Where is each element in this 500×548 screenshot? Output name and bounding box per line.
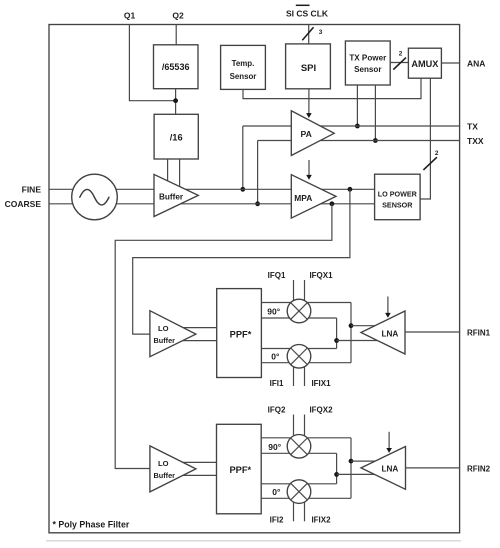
- junction TX tap: [355, 124, 360, 129]
- svg-text:IFIX2: IFIX2: [311, 516, 331, 525]
- scan artifact line: [46, 540, 461, 542]
- divider /16: [154, 114, 198, 159]
- svg-text:Temp.: Temp.: [232, 59, 255, 68]
- wire /65536 to /16: [175, 89, 177, 115]
- junction LO feed 2: [330, 201, 335, 206]
- junction LNA1 lower: [334, 338, 339, 343]
- wire IFQ1 lines: [293, 280, 295, 311]
- svg-text:LO: LO: [158, 324, 169, 333]
- junction TXX tap: [373, 138, 378, 143]
- wire TX line: [243, 125, 460, 127]
- svg-text:Q2: Q2: [172, 11, 184, 21]
- svg-text:SPI: SPI: [301, 63, 316, 74]
- mixer 1b: [287, 345, 311, 369]
- svg-text:LNA: LNA: [382, 329, 399, 338]
- wire IFI1 lines: [293, 356, 295, 386]
- svg-text:RFIN1: RFIN1: [467, 329, 491, 338]
- wire TXX line: [258, 140, 460, 142]
- svg-text:LO: LO: [158, 459, 169, 468]
- svg-text:IFIX1: IFIX1: [311, 379, 331, 388]
- wire /16 to buffer: [167, 159, 169, 186]
- svg-text:TX: TX: [467, 122, 478, 132]
- svg-text:PA: PA: [301, 129, 312, 139]
- wire TX power sense tap 1: [356, 85, 358, 126]
- junction TXX riser: [255, 201, 260, 206]
- svg-text:MPA: MPA: [294, 193, 312, 203]
- wire RF vertical 2b: [336, 453, 338, 484]
- wire AMUX to ANA pin: [441, 62, 459, 64]
- wire RF vertical 1a: [350, 303, 352, 363]
- mixer 1a: [287, 299, 311, 323]
- svg-text:90°: 90°: [267, 307, 280, 317]
- wire LO buffer2 outputs: [180, 461, 217, 463]
- svg-text:IFI1: IFI1: [270, 379, 284, 388]
- svg-text:Buffer: Buffer: [159, 193, 184, 202]
- svg-text:RFIN2: RFIN2: [467, 464, 491, 473]
- svg-text:0°: 0°: [272, 487, 281, 497]
- svg-text:0°: 0°: [271, 351, 280, 361]
- svg-text:PPF*: PPF*: [230, 330, 252, 340]
- mixer 2a: [287, 435, 311, 459]
- wire to LNA2 edges: [351, 460, 378, 462]
- svg-text:IFQX1: IFQX1: [309, 271, 333, 280]
- wire LO buffer1 outputs: [180, 327, 217, 329]
- wire LO feed 1 to LO buffer 1: [133, 189, 350, 334]
- wire IFQ2 lines: [293, 415, 295, 447]
- svg-text:SI CS CLK: SI CS CLK: [286, 8, 329, 18]
- svg-text:TXX: TXX: [467, 136, 484, 146]
- junction LNA2 lower: [334, 472, 339, 477]
- amplifier PA: [291, 111, 334, 156]
- wire FINE line: [49, 188, 375, 190]
- temp sensor: [221, 45, 266, 89]
- wire LO power sensor to AMUX: [420, 78, 430, 199]
- wire SPI bus: [308, 25, 310, 44]
- wire TX power sense tap 2: [374, 85, 376, 141]
- mixer 2b: [287, 480, 311, 504]
- svg-text:COARSE: COARSE: [5, 199, 42, 209]
- buffer amp: [154, 174, 198, 216]
- wire COARSE line: [49, 203, 375, 205]
- svg-text:2: 2: [399, 51, 403, 58]
- AMUX block: [408, 48, 441, 78]
- svg-text:IFQ2: IFQ2: [268, 406, 286, 415]
- chip outer border: [49, 25, 460, 533]
- junction Q1//65536: [173, 98, 178, 103]
- svg-text:SENSOR: SENSOR: [382, 201, 413, 210]
- MPA gain arrow: [308, 160, 310, 175]
- svg-text:PPF*: PPF*: [229, 465, 251, 475]
- svg-text:90°: 90°: [268, 442, 281, 452]
- svg-text:/16: /16: [170, 132, 183, 142]
- wire LO feed 2 to LO buffer 2: [115, 204, 332, 469]
- svg-text:LO POWER: LO POWER: [378, 190, 418, 199]
- LNA2 gain arrow: [388, 432, 390, 449]
- wire Q1: [129, 25, 175, 101]
- LO power sensor: [375, 174, 421, 220]
- bus slash 2: [393, 58, 406, 70]
- wire Q2: [175, 25, 177, 45]
- svg-text:/65536: /65536: [162, 62, 190, 72]
- wire RF vertical 1b: [336, 318, 338, 349]
- divider /65536: [154, 45, 199, 89]
- svg-text:AMUX: AMUX: [411, 59, 439, 69]
- svg-text:FINE: FINE: [22, 185, 42, 195]
- PPF 1: [217, 289, 262, 378]
- svg-text:Q1: Q1: [124, 11, 136, 21]
- svg-text:IFQX2: IFQX2: [309, 406, 333, 415]
- svg-text:Sensor: Sensor: [230, 72, 257, 81]
- junction LNA2 upper: [349, 459, 354, 464]
- junction LO feed 1: [348, 187, 353, 192]
- wire RF vertical 2a: [350, 438, 352, 499]
- wire temp sensor to AMUX: [243, 78, 421, 98]
- svg-text:Buffer: Buffer: [154, 336, 176, 345]
- SPI block: [286, 44, 331, 89]
- wire to LNA1 edges: [351, 325, 378, 327]
- LNA 2: [361, 447, 406, 490]
- oscillator: [72, 174, 118, 220]
- LO buffer 2: [150, 446, 196, 492]
- wire RFIN1: [405, 331, 460, 333]
- amplifier MPA: [291, 175, 336, 218]
- svg-text:TX Power: TX Power: [349, 54, 387, 63]
- svg-text:IFI2: IFI2: [270, 516, 284, 525]
- wire IFI2 lines: [293, 491, 295, 521]
- svg-text:LNA: LNA: [382, 465, 399, 474]
- wire mixer2b in/out: [261, 483, 336, 485]
- wire mixer2a in/out: [261, 437, 351, 439]
- svg-text:IFQ1: IFQ1: [268, 271, 286, 280]
- svg-text:3: 3: [319, 29, 323, 36]
- TX power sensor: [345, 41, 390, 85]
- junction TX riser: [240, 187, 245, 192]
- svg-text:ANA: ANA: [467, 59, 485, 69]
- LNA1 gain arrow: [387, 297, 389, 314]
- svg-text:Sensor: Sensor: [354, 65, 382, 74]
- wire mixer1a in/out: [261, 302, 351, 304]
- wire TX riser: [242, 126, 244, 189]
- junction LNA1 upper: [349, 323, 354, 328]
- wire mixer1b in/out: [261, 348, 336, 350]
- LO buffer 1: [150, 311, 196, 357]
- svg-text:* Poly Phase Filter: * Poly Phase Filter: [53, 520, 130, 530]
- wire TX power sensor to AMUX: [390, 62, 408, 64]
- LNA 1: [361, 311, 405, 354]
- wire SPI to PA gain: [308, 89, 310, 114]
- svg-text:Buffer: Buffer: [154, 471, 176, 480]
- wire RFIN2: [406, 467, 460, 469]
- svg-text:2: 2: [435, 150, 439, 157]
- wire TXX riser: [257, 141, 259, 204]
- bus slash 2b: [423, 157, 437, 170]
- PPF 2: [217, 424, 262, 514]
- bus slash 3: [302, 27, 313, 40]
